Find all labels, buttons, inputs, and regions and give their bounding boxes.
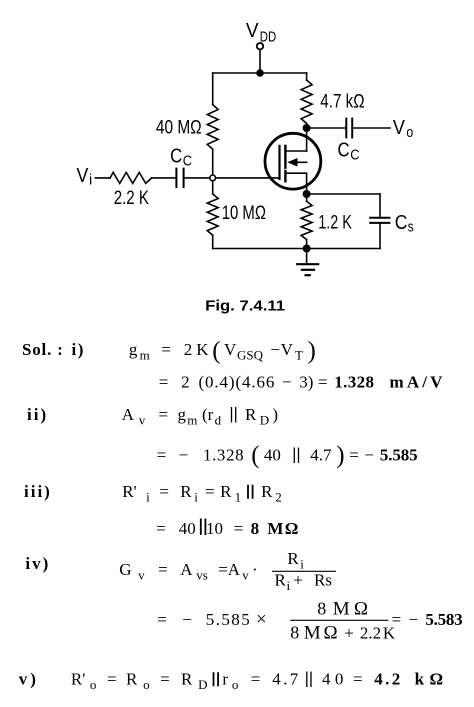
- svg-text:=: =: [157, 610, 167, 629]
- resistor R2 10M zigzag: [207, 194, 218, 235]
- svg-text:m: m: [187, 413, 197, 428]
- svg-text:mA/V: mA/V: [390, 373, 444, 392]
- svg-text:V: V: [246, 20, 259, 42]
- svg-text:R: R: [261, 482, 273, 501]
- svg-text:V: V: [281, 340, 294, 359]
- resistor Rs 2.2K zigzag: [110, 172, 152, 183]
- wire VDD stub: [259, 50, 261, 73]
- svg-text:4.7: 4.7: [310, 446, 332, 465]
- svg-text:10: 10: [206, 519, 223, 538]
- svg-text:=: =: [234, 519, 244, 538]
- capacitor CC2 plates: [345, 119, 347, 138]
- wire bottom rail: [213, 248, 380, 250]
- svg-text:v): v): [19, 670, 39, 689]
- svg-text:×: ×: [256, 609, 267, 630]
- svg-text:i): i): [72, 340, 85, 359]
- ground bar 3: [306, 274, 310, 276]
- wire CC1 to node: [185, 177, 210, 179]
- svg-text:MΩ: MΩ: [267, 519, 298, 538]
- svg-text:s: s: [408, 219, 414, 235]
- svg-text:R: R: [126, 670, 138, 689]
- wire left branch upper: [212, 73, 214, 105]
- svg-text:iv): iv): [25, 554, 50, 573]
- transistor Q1 channel segment drain: [284, 146, 286, 156]
- svg-text:−: −: [270, 340, 280, 359]
- wire node to R2: [212, 181, 214, 194]
- svg-text:o: o: [406, 125, 413, 141]
- svg-text:C: C: [395, 212, 408, 234]
- transistor Q1 channel segment source: [284, 171, 286, 181]
- capacitor Cs plates: [370, 217, 389, 219]
- wire RD to drain: [306, 124, 308, 152]
- svg-text:i: i: [300, 557, 304, 572]
- svg-text:v: v: [138, 568, 145, 583]
- svg-text:−: −: [282, 373, 292, 392]
- svg-text:3): 3): [299, 373, 313, 392]
- svg-text:=: =: [205, 482, 215, 501]
- svg-text:4.2: 4.2: [374, 670, 400, 689]
- svg-text:Rs: Rs: [314, 571, 332, 590]
- svg-text:G: G: [119, 560, 131, 579]
- svg-text:d: d: [215, 413, 222, 428]
- svg-text:=: =: [353, 670, 363, 689]
- svg-text:m: m: [140, 348, 150, 363]
- svg-text:R: R: [245, 405, 257, 424]
- transistor Q1 drain lead: [287, 150, 307, 152]
- svg-text:A: A: [180, 560, 193, 579]
- wire RS to bottom rail: [306, 240, 308, 249]
- svg-text:=: =: [107, 670, 117, 689]
- svg-text:8: 8: [290, 623, 299, 643]
- svg-text:V: V: [393, 117, 406, 139]
- node bottom junction dot: [303, 245, 311, 253]
- node top rail junction dot: [256, 69, 264, 77]
- svg-text:=: =: [392, 610, 402, 629]
- ground bar 1: [297, 263, 318, 265]
- svg-text:40: 40: [264, 446, 281, 465]
- svg-text:·: ·: [252, 560, 258, 579]
- svg-text:r: r: [222, 670, 228, 689]
- capacitor CC1 plates: [175, 169, 177, 188]
- svg-text:2: 2: [275, 490, 282, 505]
- svg-text:v: v: [242, 568, 249, 583]
- svg-text:iii): iii): [24, 482, 52, 501]
- svg-text:=: =: [251, 670, 261, 689]
- svg-text:ii): ii): [27, 405, 48, 424]
- transistor Q1 body lead: [296, 161, 307, 163]
- svg-text:): ): [308, 338, 316, 365]
- svg-text:(r: (r: [202, 405, 214, 424]
- wire CC2 to Vo: [353, 127, 390, 129]
- svg-text:R: R: [220, 482, 232, 501]
- svg-text:g: g: [129, 340, 138, 359]
- svg-text:−: −: [182, 610, 192, 629]
- wire Cs upper: [379, 194, 381, 217]
- svg-text:V: V: [224, 340, 237, 359]
- svg-text:R': R': [122, 482, 136, 501]
- node source junction dot: [303, 190, 311, 198]
- svg-text:1: 1: [235, 490, 242, 505]
- svg-text:=: =: [318, 373, 328, 392]
- svg-text:2: 2: [184, 340, 193, 359]
- svg-text:=: =: [161, 340, 171, 359]
- wire gate lead: [216, 177, 279, 179]
- svg-text:40: 40: [179, 519, 196, 538]
- svg-text:K: K: [196, 340, 209, 359]
- svg-text:C: C: [338, 140, 350, 162]
- svg-text:5.583: 5.583: [425, 610, 462, 629]
- svg-text:2.2 K: 2.2 K: [114, 188, 149, 209]
- resistor RS 1.2K zigzag: [301, 201, 312, 239]
- svg-text:+: +: [344, 624, 354, 643]
- svg-text:2.2: 2.2: [360, 624, 381, 643]
- svg-text:): ): [272, 405, 278, 424]
- wire Rs to CC1: [152, 177, 176, 179]
- svg-text:(: (: [251, 442, 259, 469]
- sol iv numeric fraction bar: [290, 619, 388, 621]
- svg-text:o: o: [232, 677, 239, 692]
- svg-text:R: R: [287, 549, 299, 568]
- svg-text:5.585: 5.585: [380, 446, 418, 465]
- svg-text:i: i: [194, 490, 198, 505]
- svg-text:−: −: [179, 446, 189, 465]
- svg-text:5.585: 5.585: [206, 610, 250, 629]
- svg-text:Sol. :: Sol. :: [22, 340, 64, 359]
- transistor Q1 gate bar: [278, 146, 280, 179]
- resistor RD 4.7k zigzag: [301, 80, 312, 124]
- svg-text:−: −: [409, 610, 419, 629]
- svg-text:vs: vs: [196, 568, 208, 583]
- svg-text:R: R: [275, 571, 287, 590]
- svg-text:1.328: 1.328: [334, 373, 374, 392]
- svg-text:=: =: [159, 373, 169, 392]
- svg-text:=: =: [159, 405, 169, 424]
- wire right branch top: [306, 73, 308, 80]
- resistor R1 40M zigzag: [207, 105, 218, 150]
- svg-text:D: D: [198, 677, 207, 692]
- svg-text:10 MΩ: 10 MΩ: [222, 203, 266, 224]
- wire source to RS: [306, 194, 308, 201]
- svg-text:V: V: [77, 165, 89, 187]
- transistor Q1 circle: [265, 133, 321, 189]
- svg-text:4.7: 4.7: [272, 670, 299, 689]
- node drain junction dot: [303, 124, 311, 132]
- svg-text:v: v: [139, 413, 146, 428]
- svg-text:MΩ: MΩ: [304, 623, 338, 644]
- svg-text:40 MΩ: 40 MΩ: [156, 118, 202, 139]
- svg-text:=: =: [158, 560, 168, 579]
- svg-text:D: D: [260, 413, 269, 428]
- svg-text:=: =: [349, 446, 359, 465]
- svg-text:T: T: [295, 348, 303, 363]
- svg-text:): ): [336, 442, 344, 469]
- svg-text:GSQ: GSQ: [237, 348, 264, 363]
- svg-text:R: R: [181, 670, 193, 689]
- node input open circle: [210, 175, 216, 181]
- svg-text:=: =: [160, 670, 170, 689]
- svg-text:MΩ: MΩ: [333, 599, 368, 620]
- svg-text:R': R': [71, 670, 85, 689]
- ground bar 2: [302, 269, 314, 271]
- svg-text:−: −: [364, 446, 374, 465]
- wire source to Cs branch: [307, 193, 380, 195]
- svg-text:2: 2: [181, 373, 190, 392]
- sol iv fraction bar: [272, 570, 336, 572]
- svg-text:40: 40: [322, 670, 343, 689]
- svg-text:C: C: [170, 145, 182, 167]
- svg-text:=: =: [157, 446, 167, 465]
- svg-text:o: o: [90, 677, 97, 692]
- svg-text:DD: DD: [260, 28, 277, 45]
- svg-text:R: R: [180, 482, 192, 501]
- svg-text:C: C: [183, 153, 192, 169]
- wire Cs lower: [379, 224, 381, 249]
- svg-text:(: (: [212, 338, 220, 365]
- transistor Q1 body arrow: [287, 158, 297, 167]
- transistor Q1 source lead: [287, 173, 307, 194]
- svg-text:1.328: 1.328: [203, 446, 244, 465]
- svg-text:A: A: [122, 405, 135, 424]
- transistor Q1 channel segment body: [284, 157, 286, 167]
- svg-text:o: o: [143, 677, 150, 692]
- svg-text:=: =: [159, 482, 169, 501]
- svg-text:1.2 K: 1.2 K: [318, 212, 352, 233]
- node VDD terminal: [257, 43, 263, 49]
- wire top rail: [213, 72, 307, 74]
- svg-text:(0.4)(4.66: (0.4)(4.66: [199, 373, 275, 392]
- wire input lead from Vi: [95, 177, 110, 179]
- svg-text:i: i: [287, 578, 291, 593]
- ground stub: [306, 249, 308, 264]
- svg-text:=: =: [156, 519, 166, 538]
- svg-text:8: 8: [317, 599, 326, 619]
- svg-text:Fig. 7.4.11: Fig. 7.4.11: [205, 298, 285, 315]
- svg-text:=A: =A: [218, 560, 241, 579]
- svg-text:g: g: [178, 405, 187, 424]
- wire R1 to input node: [212, 149, 214, 175]
- wire output lead: [307, 127, 346, 129]
- svg-text:4.7 kΩ: 4.7 kΩ: [320, 91, 364, 112]
- svg-text:i: i: [146, 490, 150, 505]
- svg-text:C: C: [350, 148, 359, 164]
- svg-text:i: i: [89, 173, 92, 189]
- svg-text:kΩ: kΩ: [415, 670, 444, 689]
- wire R2 to bottom rail: [212, 235, 214, 248]
- svg-text:+: +: [293, 571, 303, 590]
- svg-text:8: 8: [251, 519, 260, 538]
